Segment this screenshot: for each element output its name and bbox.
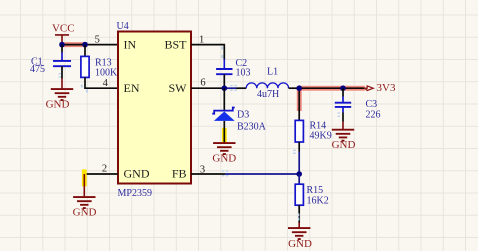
pin 2 wire GND: [84, 173, 118, 175]
svg-text:GND: GND: [46, 99, 70, 111]
svg-text:BST: BST: [164, 37, 187, 51]
capacitor C1 475: [30, 45, 71, 76]
ground GND at C1: [46, 66, 74, 110]
svg-text:4u7H: 4u7H: [257, 89, 279, 100]
pin 3 wire FB to divider node: [191, 173, 299, 175]
wire pin 2 to ground (highlighted yellow): [82, 169, 87, 196]
svg-text:3V3: 3V3: [377, 82, 396, 94]
wire D3 anode to ground (highlighted yellow): [222, 121, 227, 143]
inductor L1 4u7H: [246, 66, 288, 100]
wire R13 to EN pin: [85, 77, 118, 88]
diode D3 B230A (schottky): [212, 88, 266, 132]
svg-text:FB: FB: [172, 167, 187, 181]
svg-text:103: 103: [236, 67, 251, 78]
ground GND at D3: [212, 143, 236, 165]
svg-text:GND: GND: [288, 238, 312, 250]
svg-text:4: 4: [103, 78, 109, 89]
capacitor C3 226: [335, 88, 381, 120]
svg-text:U4: U4: [117, 21, 129, 32]
ground GND at C3: [332, 107, 356, 151]
svg-text:2: 2: [102, 164, 107, 175]
power flag VCC: [52, 23, 75, 45]
IC U4 MP2359 body: [117, 21, 192, 199]
svg-text:GND: GND: [212, 153, 236, 165]
ground GND at pin 2: [73, 197, 97, 218]
svg-text:475: 475: [30, 64, 45, 75]
svg-text:L1: L1: [267, 66, 278, 77]
svg-text:5: 5: [95, 34, 100, 45]
svg-text:SW: SW: [169, 81, 188, 95]
svg-text:GND: GND: [73, 206, 97, 218]
wire output node to 3V3 port (net highlighted): [299, 86, 365, 91]
capacitor C2 103: [216, 58, 250, 79]
svg-text:MP2359: MP2359: [118, 188, 152, 199]
junction node VCC/C1: [59, 42, 65, 48]
junction node output/L1/R14: [296, 85, 302, 91]
svg-text:49K9: 49K9: [310, 131, 332, 142]
wire output node down to R14 (net highlighted): [297, 86, 302, 120]
wire R14 to FB node: [298, 142, 300, 174]
junction node SW/C2/D3: [222, 85, 228, 91]
wire pin 1 BST to C2: [191, 45, 224, 60]
svg-text:GND: GND: [124, 167, 150, 181]
svg-text:C3: C3: [366, 99, 378, 110]
svg-text:IN: IN: [124, 37, 137, 51]
off-grid junction markers: [59, 47, 340, 221]
svg-text:6: 6: [200, 78, 205, 89]
svg-text:VCC: VCC: [52, 23, 75, 35]
svg-text:D3: D3: [237, 110, 249, 121]
power port 3V3: [365, 82, 396, 94]
resistor R13 100K: [81, 45, 118, 79]
svg-text:226: 226: [366, 110, 381, 121]
svg-text:B230A: B230A: [237, 122, 267, 133]
junction node R13 top: [82, 42, 88, 48]
wire L1 to output node: [289, 87, 300, 89]
ground GND at R15: [288, 228, 312, 250]
junction node C3: [340, 85, 346, 91]
wire R15 to ground: [298, 205, 300, 227]
svg-text:EN: EN: [124, 81, 140, 95]
junction node FB divider: [296, 171, 302, 177]
resistor R14 49K9: [295, 120, 332, 142]
wire VCC node to IN pin (net highlighted): [60, 42, 118, 47]
pin 6 wire SW to L1: [191, 87, 246, 89]
wire C2 to SW node: [223, 74, 225, 88]
resistor R15 16K2: [295, 174, 329, 206]
svg-text:16K2: 16K2: [307, 195, 329, 206]
svg-text:GND: GND: [332, 139, 356, 151]
